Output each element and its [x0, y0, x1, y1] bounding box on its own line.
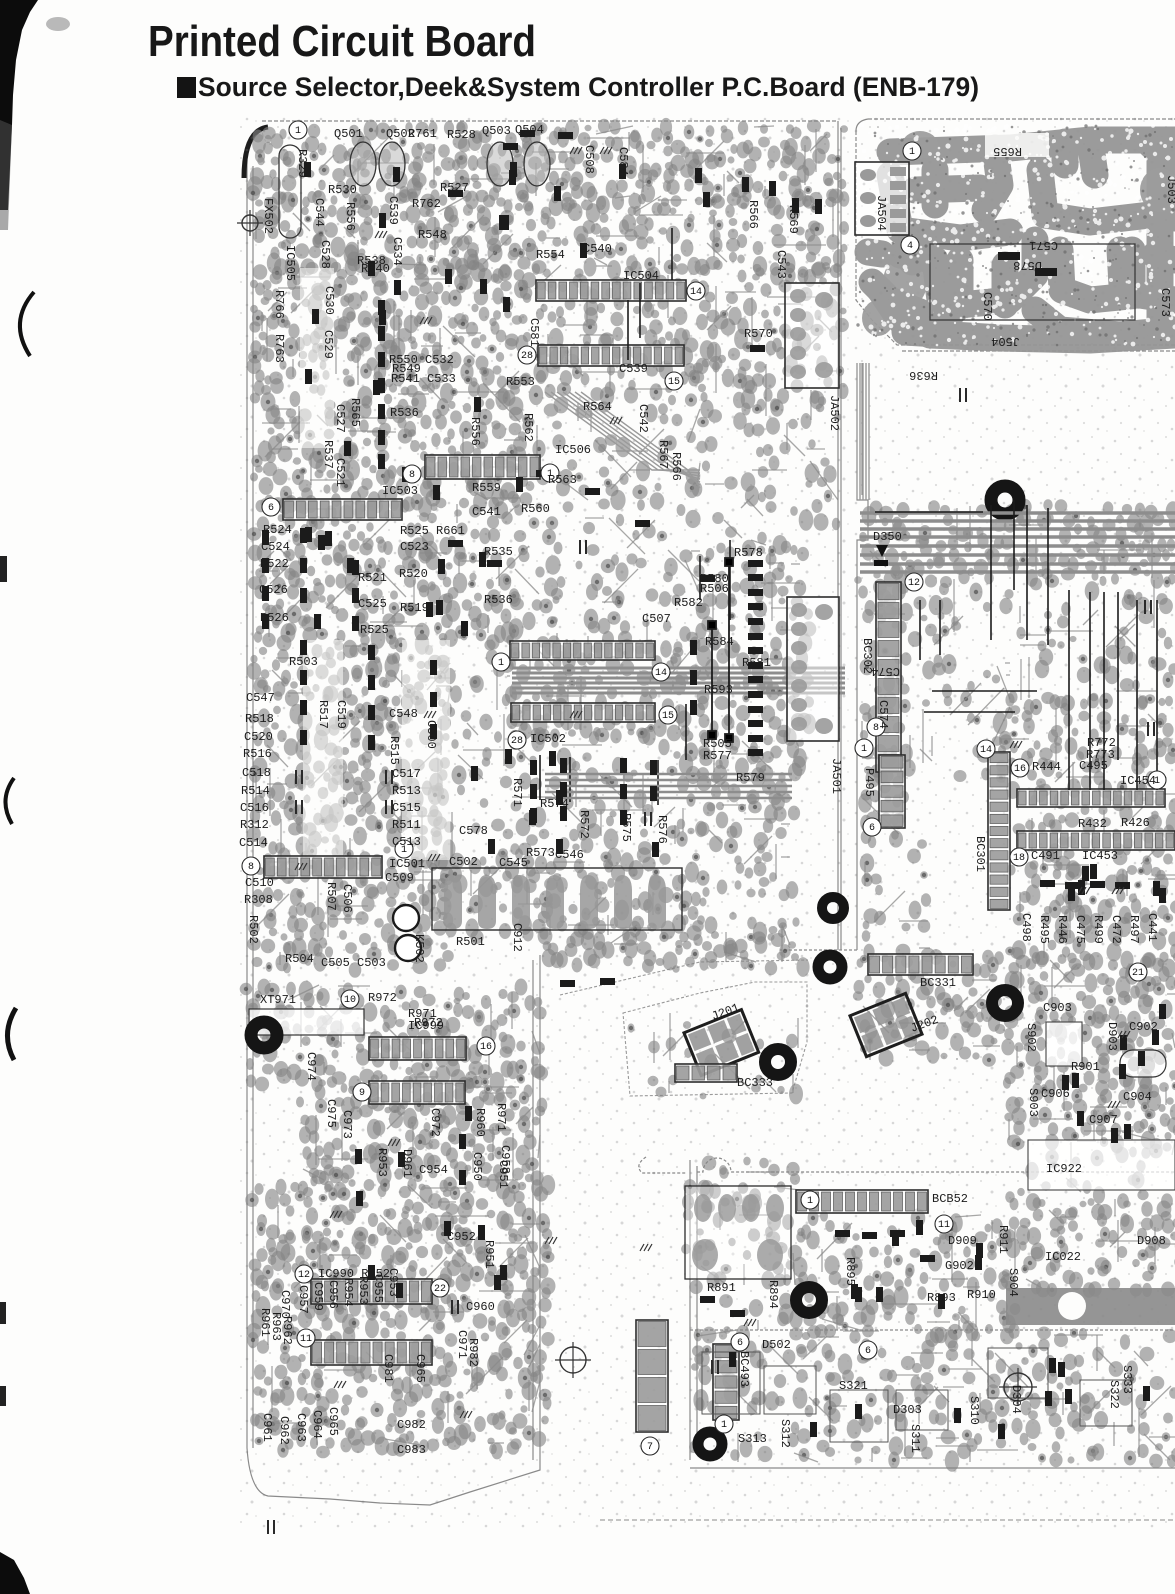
J201 tilted pad grid — [684, 1010, 759, 1076]
svg-text:Printed Circuit Board: Printed Circuit Board — [148, 17, 536, 66]
hatch marks — [295, 147, 1130, 1418]
pin number 11 marker — [935, 1215, 953, 1233]
donut bottom mid — [796, 1287, 822, 1313]
copper area top strip — [246, 118, 849, 213]
pin number 16 marker — [477, 1037, 495, 1055]
scan artifact: bottom-left black edge — [0, 1552, 30, 1594]
S strip component outline boxes — [702, 1348, 1132, 1442]
pin number 1 marker — [715, 1415, 733, 1433]
IC999 connector — [369, 1037, 466, 1060]
pin number 12 marker — [295, 1265, 313, 1283]
copper area diag traces zone — [526, 387, 708, 499]
BC493 ladder — [713, 1344, 739, 1420]
copper area below P495 — [860, 830, 932, 975]
dark copper band bottom right — [1006, 1288, 1175, 1325]
connector FX502 outline — [279, 145, 301, 238]
BC333 connector — [675, 1064, 737, 1082]
white routing gaps left block — [300, 268, 450, 860]
scan artifact: left paren mark 3 — [7, 1008, 16, 1060]
copper area IC502 zone — [505, 636, 712, 746]
copper area R524 block — [247, 494, 453, 650]
copper area mid sparse right — [901, 576, 1018, 782]
transistor Q501 — [350, 142, 376, 186]
copper area C507 zone — [555, 490, 706, 661]
BC302 ladder connector — [876, 582, 901, 772]
pin number 10 marker — [341, 990, 359, 1008]
IC504 connector row 1 — [536, 280, 686, 301]
scan artifact: left paren mark 1 — [20, 292, 34, 356]
scan artifact: left tick 3 — [0, 1386, 6, 1406]
donut bottom left of S strip — [698, 1432, 722, 1456]
pin number 1 marker — [492, 653, 510, 671]
pin number 1 marker — [801, 1191, 819, 1209]
copper area IC501 block — [247, 850, 454, 978]
pin number 12 marker — [905, 573, 923, 591]
pin number 14 marker — [977, 740, 995, 758]
pin number 15 marker — [665, 372, 683, 390]
copper area col gap — [444, 635, 522, 858]
screw cross left edge — [242, 215, 258, 231]
copper area K502 big pads zone — [429, 851, 704, 945]
IC990 connector row 1 — [311, 1279, 432, 1304]
copper area wires zone — [1016, 574, 1175, 715]
copper area IC454 zone — [1006, 778, 1175, 880]
IC506 connector — [425, 455, 540, 479]
pin number 1 marker — [395, 840, 413, 858]
mounting hole donut right mid — [991, 486, 1019, 514]
trace band lower right of IC502 — [545, 774, 792, 798]
XT971 donut — [251, 1022, 277, 1048]
thick copper traces J504 section — [868, 140, 1175, 340]
copper area R571 zone — [510, 725, 711, 867]
scan artifact: left tick — [0, 556, 7, 582]
pin number 6 marker — [859, 1341, 877, 1359]
big pads box C546 — [432, 868, 682, 930]
board outline: right top section (J504 board) — [856, 119, 1175, 351]
IC503 connector — [283, 499, 402, 520]
copper area IC999 block — [295, 1065, 548, 1192]
IC501 connector — [264, 856, 382, 878]
copper area left of donut — [689, 1280, 803, 1342]
copper area R772 zone — [993, 693, 1175, 794]
pin number 8 marker — [867, 718, 885, 736]
scan artifact: top-left black edge — [0, 0, 38, 210]
R891 component box — [685, 1186, 791, 1279]
scan artifact: left tick 2 — [0, 1302, 6, 1324]
copper area C903 block — [1001, 944, 1175, 1153]
donut near J201 — [765, 1049, 791, 1075]
IC502 connector row 1 — [510, 641, 655, 660]
copper area C547 columns — [247, 633, 456, 866]
scan artifact: smudge top — [46, 17, 70, 31]
copper area IC990 lower block — [247, 1301, 555, 1459]
jumper wires right section — [875, 500, 1157, 790]
IC922 component box — [1028, 1140, 1175, 1190]
copper area R891 top — [700, 1156, 800, 1201]
IC502 connector row 2 — [511, 703, 655, 722]
XT971 component box — [249, 1009, 364, 1035]
copper area below JA502 — [702, 436, 840, 556]
diagonal trace bundle below IC504 — [545, 392, 700, 488]
copper area BC331 zone — [853, 944, 1006, 1067]
copper area XT971 zone — [240, 979, 548, 1093]
jumper wires left board — [540, 228, 730, 805]
pin number 1 marker — [1148, 771, 1166, 789]
capacitor marks — [268, 388, 1154, 1534]
pin number 9 marker — [353, 1083, 371, 1101]
pin number 8 marker — [242, 857, 260, 875]
horizontal trace stripes right — [860, 513, 1175, 572]
pin number 28 marker — [508, 731, 526, 749]
crosshair target left gutter — [560, 1347, 586, 1373]
subtitle black square — [177, 77, 196, 98]
JA501 connector — [787, 597, 839, 741]
transistor Q503 — [487, 142, 513, 186]
BC331 connector — [868, 954, 973, 975]
jumper wires R584 R593 — [708, 558, 733, 742]
pin number 1 marker — [541, 464, 559, 482]
pin number 28 marker — [518, 346, 536, 364]
pin number 21 marker — [1129, 963, 1147, 981]
copper area upper-mid — [561, 189, 849, 280]
pin number 8 marker — [403, 465, 421, 483]
transistor Q504 — [524, 142, 550, 186]
white box C902 — [1046, 1022, 1082, 1066]
board outline: bottom-right section — [600, 1157, 1175, 1520]
donut JA501 bottom — [822, 897, 844, 919]
copper area left-center block — [247, 258, 533, 518]
transistor Q502 — [379, 142, 405, 186]
pin number 22 marker — [431, 1279, 449, 1297]
pin number 6 marker — [863, 818, 881, 836]
R655 white label gap — [985, 133, 1049, 157]
copper area IC504 zone — [514, 259, 709, 406]
vertical trace bundle right board edge — [860, 363, 869, 500]
copper area upper-left block — [253, 190, 563, 281]
copper area BC302 column — [858, 571, 913, 848]
copper area JA501 lower zone — [697, 793, 801, 960]
P495 ladder connector — [879, 755, 905, 828]
board outline: left board top and edges — [247, 121, 841, 1505]
IC454 connector row — [1017, 789, 1165, 807]
pin number 14 marker — [687, 282, 705, 300]
J202 tilted pad grid — [850, 993, 922, 1056]
pin number 1 marker — [289, 121, 307, 139]
K502 hole circles — [393, 905, 419, 931]
pin number 6 marker — [262, 498, 280, 516]
donut top right of J201 — [818, 955, 842, 979]
copper area IC922 zone — [1025, 1134, 1175, 1194]
copper area J201 subsection — [628, 1021, 804, 1104]
oval outline Q901 — [1120, 1050, 1166, 1077]
pin number 4 marker — [901, 236, 919, 254]
board outline: left board bottom divider — [560, 960, 808, 995]
JA502 connector — [785, 283, 839, 388]
copper area right stripes zone — [854, 499, 1175, 589]
board outline: J201 subsection — [623, 982, 807, 1096]
IC990 connector row 2 — [311, 1340, 432, 1365]
copper area R891 box zone — [681, 1179, 802, 1289]
copper area R578 column — [696, 541, 816, 817]
IC453 connector row — [1017, 831, 1175, 850]
pin number 11 marker — [297, 1329, 315, 1347]
board outline: right main section left edge — [780, 363, 868, 950]
chip components (black bars) — [262, 130, 1166, 1439]
pin number 16 marker — [1011, 759, 1029, 777]
diode D350 — [876, 545, 888, 557]
donut right of J202 — [992, 990, 1018, 1016]
copper area below IC453 — [1012, 860, 1175, 970]
trace band below IC502 — [512, 668, 845, 693]
small black parts J504 — [998, 252, 1020, 260]
BC301 ladder connector — [988, 752, 1010, 910]
halftone speckle over J504 — [858, 123, 1175, 347]
pin number 1 marker — [855, 739, 873, 757]
pin number 7 marker — [641, 1437, 659, 1455]
pin number 1 marker — [903, 142, 921, 160]
crosshair target right — [1004, 1373, 1032, 1401]
copper area S strip — [689, 1323, 1175, 1472]
pin number 18 marker — [1010, 848, 1028, 866]
copper area C912 band — [539, 920, 809, 977]
copper area D909 zone — [1001, 1186, 1175, 1298]
JA504 connector box — [855, 162, 909, 235]
IC504 connector row 2 — [538, 345, 684, 366]
svg-text:Source Selector,Deek&System Co: Source Selector,Deek&System Controller P… — [198, 72, 979, 102]
copper area under BC852 — [789, 1208, 1020, 1344]
pin number 15 marker — [659, 706, 677, 724]
pin number 6 marker — [731, 1333, 749, 1351]
BC852 connector — [796, 1190, 928, 1213]
scan artifact: left paren mark 2 — [5, 778, 14, 824]
copper area IC990 block — [245, 1175, 555, 1319]
J504 white component box — [930, 244, 1135, 320]
board outline: top-left bold corner — [244, 127, 268, 178]
copper area JA502 zone — [696, 260, 849, 437]
ladder 7 connector — [636, 1320, 668, 1432]
copper area mid block — [444, 494, 563, 650]
pin number 14 marker — [652, 663, 670, 681]
connector row 9 — [369, 1081, 465, 1104]
